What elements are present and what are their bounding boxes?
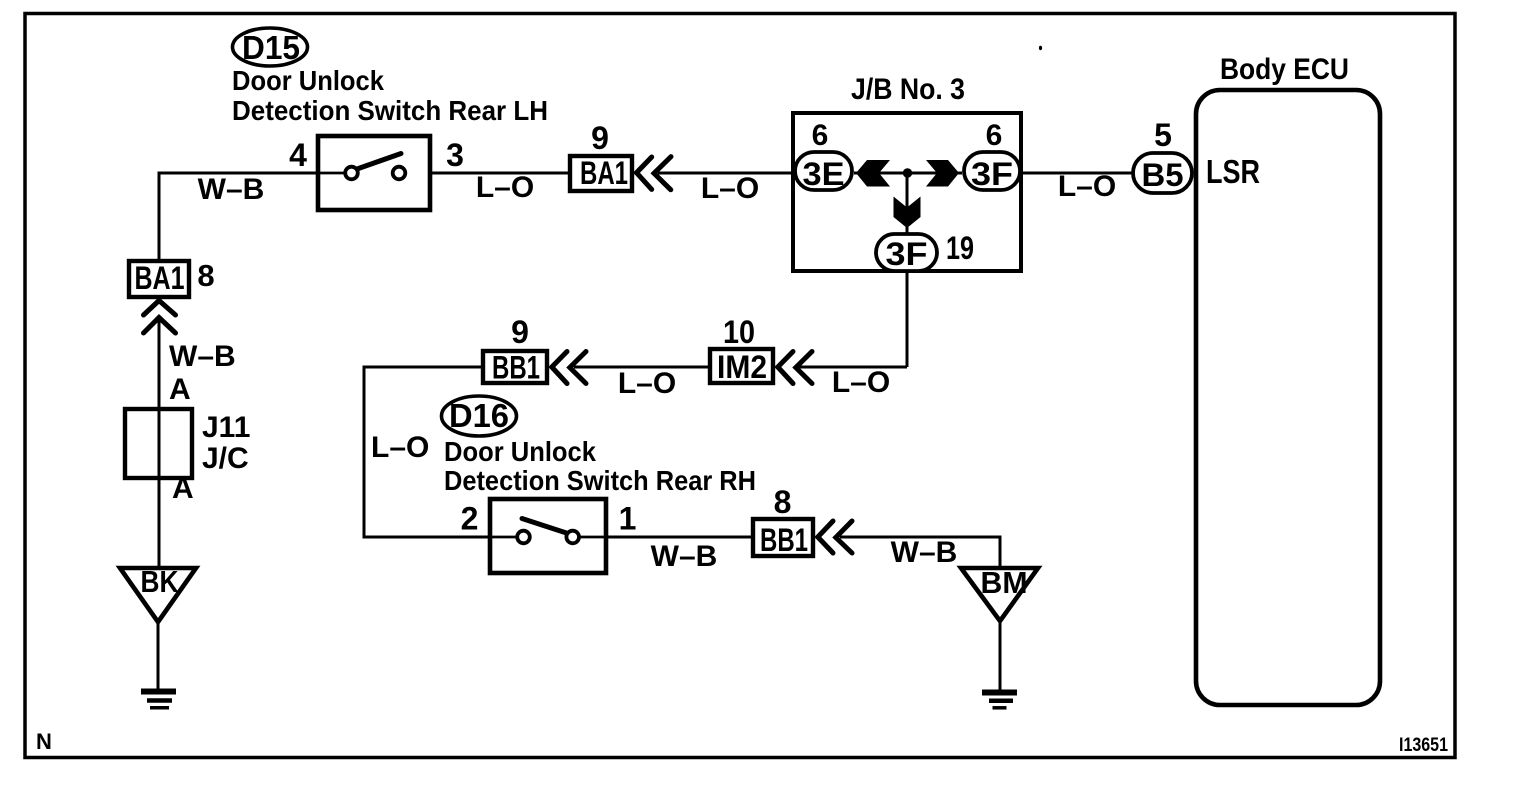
svg-text:J/B No. 3: J/B No. 3 [851,73,965,106]
svg-text:W–B: W–B [891,536,958,569]
svg-text:BK: BK [141,564,180,599]
svg-text:3E: 3E [803,156,845,192]
svg-text:J/C: J/C [202,442,249,475]
svg-text:Detection Switch Rear LH: Detection Switch Rear LH [232,95,548,126]
svg-text:L–O: L–O [832,366,890,399]
svg-text:6: 6 [986,119,1003,152]
svg-text:Detection Switch Rear RH: Detection Switch Rear RH [444,465,756,496]
svg-text:D16: D16 [449,397,509,434]
svg-text:D15: D15 [242,29,300,66]
svg-text:L–O: L–O [476,171,534,204]
svg-text:BA1: BA1 [135,260,185,296]
svg-text:J11: J11 [202,411,250,444]
svg-text:Door Unlock: Door Unlock [232,65,384,96]
svg-text:9: 9 [511,314,529,350]
svg-text:10: 10 [723,314,755,350]
svg-text:3F: 3F [886,236,928,272]
svg-text:3F: 3F [971,156,1013,192]
svg-text:B5: B5 [1142,157,1184,193]
svg-text:LSR: LSR [1206,153,1260,190]
svg-text:BB1: BB1 [492,350,540,386]
svg-text:4: 4 [289,137,307,173]
svg-text:BM: BM [981,565,1028,600]
svg-text:L–O: L–O [618,367,676,400]
svg-text:W–B: W–B [651,540,718,573]
svg-text:3: 3 [446,137,464,173]
svg-text:I13651: I13651 [1399,735,1448,756]
svg-text:6: 6 [812,119,829,152]
svg-text:Door Unlock: Door Unlock [444,436,596,467]
svg-text:N: N [36,729,52,754]
svg-text:19: 19 [946,230,974,266]
svg-text:Body ECU: Body ECU [1220,53,1349,86]
svg-text:A: A [169,373,191,406]
svg-text:W–B: W–B [198,173,265,206]
svg-text:A: A [172,472,194,505]
svg-text:IM2: IM2 [717,349,767,385]
svg-text:5: 5 [1154,117,1172,153]
svg-text:BA1: BA1 [580,155,628,191]
svg-text:8: 8 [774,484,792,520]
svg-text:8: 8 [197,258,214,293]
svg-text:9: 9 [591,120,609,156]
svg-text:BB1: BB1 [760,522,808,558]
svg-text:2: 2 [461,501,479,537]
svg-text:L–O: L–O [371,431,429,464]
svg-text:L–O: L–O [701,172,759,205]
svg-text:1: 1 [619,501,637,537]
svg-text:L–O: L–O [1058,170,1116,203]
svg-text:W–B: W–B [169,340,236,373]
